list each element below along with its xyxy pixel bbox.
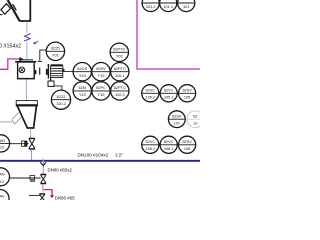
svg-text:Y10: Y10 — [79, 92, 87, 97]
red drain line — [43, 184, 52, 196]
valve XV2 (drain, vertical hourglass) — [40, 175, 46, 184]
ghost bubble (faded) — [187, 111, 204, 128]
instrument bubble 62VC/108.2 — [142, 136, 159, 153]
svg-text:62PTC: 62PTC — [114, 66, 126, 71]
svg-text:62VC: 62VC — [146, 89, 156, 93]
svg-text:62VC: 62VC — [164, 89, 174, 93]
instrument bubble 62VC/108.1 — [160, 136, 177, 153]
actuator box (half dark) — [22, 141, 27, 146]
magenta signal line (right) — [137, 0, 200, 69]
svg-text:Y02: Y02 — [116, 54, 123, 59]
instrument bubble AN/13 (left edge, cut) — [0, 168, 10, 186]
svg-text:62: 62 — [193, 115, 197, 119]
instrument bubble 101.2 (top, cut) — [142, 0, 159, 12]
blue leader arrow — [34, 41, 39, 44]
svg-text:AV: AV — [0, 194, 5, 198]
svg-text:62M: 62M — [79, 85, 87, 90]
instrument bubble 62VC/105.1 — [160, 85, 177, 102]
valve XV3 (bottom, cut) — [39, 194, 45, 201]
instrument bubble 101.1 (top, cut) — [160, 0, 177, 12]
instrument bubble 62PC/Y10 — [92, 82, 110, 100]
svg-text:AN: AN — [0, 173, 5, 177]
svg-text:Y10: Y10 — [98, 92, 106, 97]
svg-text:110.2: 110.2 — [56, 101, 65, 106]
level sensor line — [38, 50, 47, 62]
tank outlet nozzle — [34, 70, 37, 75]
svg-text:62CS: 62CS — [77, 66, 87, 71]
signal line to hopper valve — [10, 143, 29, 145]
instrument bubble 62M/Y10 — [73, 82, 91, 100]
pipe (hopper outlet, lavender) — [30, 129, 32, 139]
pipe (break to tank, lavender) — [26, 43, 28, 60]
pipe break symbol (blue zigzag) — [24, 34, 30, 41]
svg-text:108: 108 — [184, 147, 190, 151]
instrument bubble AV (left edge bottom, cut) — [0, 190, 9, 208]
svg-text:DN80 #65: DN80 #65 — [55, 196, 75, 200]
svg-text:101.2: 101.2 — [146, 4, 156, 9]
svg-text:10: 10 — [193, 121, 197, 125]
instrument bubble 62CS/Y10 — [73, 62, 91, 80]
svg-text:12: 12 — [0, 146, 4, 150]
valve XV1 (hopper drain, vertical hourglass) — [29, 139, 35, 149]
magenta feed line (left) — [0, 59, 20, 69]
svg-text:Y10: Y10 — [79, 73, 87, 78]
tank T1 (mixer) — [15, 60, 36, 80]
svg-text:0 #154x2: 0 #154x2 — [0, 44, 21, 50]
instrument bubble 62SV/Y10 — [92, 62, 110, 80]
svg-text:Y01: Y01 — [52, 53, 59, 58]
instrument bubble 101 (top, cut) — [178, 0, 195, 12]
actuator box 2 — [30, 176, 35, 180]
svg-text:6222: 6222 — [57, 94, 66, 99]
instrument bubble AN/12 (left edge, cut) — [0, 135, 10, 152]
svg-text:101.1: 101.1 — [163, 4, 173, 9]
svg-text:62PTC: 62PTC — [114, 85, 126, 90]
svg-text:6225: 6225 — [51, 46, 60, 51]
red arrowhead — [50, 195, 54, 198]
vessel V1 (top-left cyclone bottom) — [0, 0, 31, 21]
svg-text:DN80 #65x2: DN80 #65x2 — [48, 168, 73, 173]
instrument bubble 62SV/108 — [179, 136, 196, 153]
svg-text:62SV: 62SV — [172, 115, 182, 119]
pipe (valve to header, lavender) — [31, 149, 33, 160]
svg-text:108.2: 108.2 — [146, 147, 156, 151]
pipe (tank to hopper, lavender) — [26, 80, 28, 101]
svg-text:Y10: Y10 — [98, 73, 106, 78]
svg-text:62VC: 62VC — [164, 140, 174, 144]
instrument bubble 62PTC/110.3 — [111, 82, 129, 100]
chute (grey) — [0, 113, 21, 125]
signal line to drain valve — [9, 177, 41, 179]
svg-text:13: 13 — [0, 180, 4, 184]
signal line feeder to bubbles — [64, 70, 73, 72]
svg-text:62SV: 62SV — [96, 66, 106, 71]
svg-text:62PTC: 62PTC — [113, 47, 125, 52]
instrument bubble 62SV/105 — [179, 85, 196, 102]
svg-text:110.3: 110.3 — [115, 92, 124, 97]
svg-text:62VC: 62VC — [146, 140, 156, 144]
instrument bubble 62VC/105.2 — [142, 85, 159, 102]
svg-text:62PC: 62PC — [96, 85, 106, 90]
svg-text:108.1: 108.1 — [164, 147, 174, 151]
svg-text:62SV: 62SV — [182, 140, 192, 144]
branch Y arms — [40, 162, 46, 165]
svg-text:105.2: 105.2 — [146, 95, 156, 99]
svg-text:1'2": 1'2" — [115, 152, 123, 158]
gate stem — [39, 68, 41, 75]
faint pink stub — [42, 184, 44, 196]
pipe (vessel outlet, lavender) — [26, 22, 28, 33]
agitator M — [19, 67, 25, 73]
main header pipe (navy) — [0, 160, 200, 162]
svg-text:105: 105 — [184, 95, 190, 99]
arrowhead on magenta feed — [20, 57, 24, 61]
drain branch pipe (lavender) — [42, 159, 44, 175]
svg-text:105.1: 105.1 — [164, 95, 174, 99]
instrument bubble 6222/110.2 — [51, 90, 70, 109]
instrument bubble 62SV/107 — [168, 111, 185, 128]
signal line to bottom valve — [29, 194, 40, 196]
instrument bubble 62PTC/110.1 — [111, 62, 129, 80]
svg-text:AN: AN — [0, 139, 5, 143]
feeder F1 (rotary feeder with motor) — [46, 64, 65, 90]
hopper H1 — [16, 101, 37, 128]
instrument bubble 6225/Y01 — [46, 42, 64, 60]
svg-text:107: 107 — [174, 121, 180, 125]
svg-text:110.1: 110.1 — [115, 73, 124, 78]
svg-text:DN100 #104x2: DN100 #104x2 — [78, 152, 109, 157]
instrument bubble 62PTC/Y02 — [110, 43, 128, 61]
svg-text:101: 101 — [183, 4, 190, 9]
svg-text:62SV: 62SV — [182, 89, 192, 93]
